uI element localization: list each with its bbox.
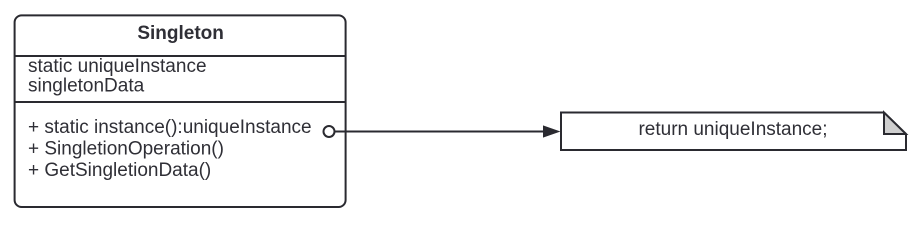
svg-text:return uniqueInstance;: return uniqueInstance; bbox=[638, 119, 827, 140]
separator line (attributes/methods) bbox=[15, 101, 346, 103]
note shape bbox=[561, 113, 906, 151]
svg-text:+ static instance():uniqueInst: + static instance():uniqueInstance bbox=[28, 117, 312, 138]
separator line (title/attributes) bbox=[15, 55, 346, 57]
note folded corner bbox=[884, 113, 906, 135]
svg-text:+ SingletionOperation(): + SingletionOperation() bbox=[28, 139, 224, 160]
class box Singleton bbox=[15, 15, 346, 207]
svg-text:singletonData: singletonData bbox=[28, 76, 145, 97]
svg-text:+ GetSingletionData(): + GetSingletionData() bbox=[28, 160, 211, 181]
circle connector on method line bbox=[324, 126, 335, 137]
wire from circle to note bbox=[335, 131, 544, 133]
svg-text:static uniqueInstance: static uniqueInstance bbox=[28, 56, 207, 77]
svg-text:Singleton: Singleton bbox=[137, 23, 224, 44]
arrowhead bbox=[543, 125, 561, 137]
